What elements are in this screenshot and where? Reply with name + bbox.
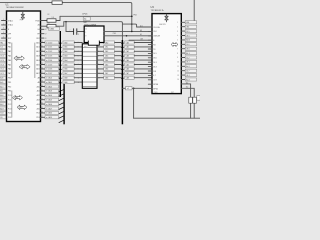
svg-text:25: 25 bbox=[41, 63, 43, 65]
junction TAG branch bbox=[65, 21, 67, 23]
svg-text:AB.6: AB.6 bbox=[186, 39, 190, 42]
svg-text:7DEN: 7DEN bbox=[154, 92, 158, 94]
svg-text:OC5: OC5 bbox=[0, 55, 4, 57]
bus 1b slash entries bbox=[59, 89, 64, 122]
U1 internal data-bus arrow symbol 4 bbox=[17, 105, 27, 110]
svg-text:16: 16 bbox=[45, 29, 47, 31]
junction row3 bbox=[126, 35, 128, 37]
svg-text:PC3: PC3 bbox=[8, 108, 11, 110]
svg-text:18: 18 bbox=[45, 38, 47, 40]
svg-text:A4.2: A4.2 bbox=[186, 78, 190, 81]
svg-text:A15: A15 bbox=[37, 107, 40, 110]
svg-text:R3: R3 bbox=[48, 23, 50, 25]
svg-text:DA7: DA7 bbox=[64, 72, 67, 75]
svg-text:DA1: DA1 bbox=[64, 46, 67, 49]
svg-text:AD7: AD7 bbox=[36, 72, 39, 75]
svg-text:35: 35 bbox=[41, 107, 43, 109]
svg-text:CPUb: CPUb bbox=[82, 13, 88, 15]
svg-text:m CD02: m CD02 bbox=[46, 51, 52, 53]
svg-text:w8: w8 bbox=[127, 88, 129, 90]
svg-text:AD3: AD3 bbox=[0, 107, 3, 110]
svg-text:29: 29 bbox=[41, 81, 43, 83]
svg-text:11: 11 bbox=[177, 66, 179, 68]
svg-text:CKT: CKT bbox=[153, 80, 156, 82]
svg-text:26: 26 bbox=[41, 68, 43, 70]
svg-text:CA8: CA8 bbox=[126, 76, 129, 79]
svg-text:21: 21 bbox=[41, 46, 43, 48]
svg-text:27: 27 bbox=[41, 72, 43, 74]
svg-text:A8: A8 bbox=[38, 76, 40, 79]
svg-text:AD1: AD1 bbox=[36, 46, 39, 49]
svg-text:AD0: AD0 bbox=[36, 41, 39, 44]
svg-text:24: 24 bbox=[41, 59, 43, 61]
svg-text:OC1: OC1 bbox=[0, 73, 4, 75]
svg-text:A10: A10 bbox=[0, 85, 3, 88]
svg-text:PB3: PB3 bbox=[8, 91, 11, 93]
svg-text:DA4: DA4 bbox=[64, 59, 67, 62]
svg-text:AD5: AD5 bbox=[36, 63, 39, 66]
svg-text:b b b: b b b bbox=[84, 46, 88, 48]
wire between verticals bbox=[122, 24, 136, 27]
U3 power/crystal symbol bbox=[159, 14, 168, 26]
U2 internal pin texts bbox=[86, 27, 87, 37]
svg-text:14.3: 14.3 bbox=[153, 62, 156, 64]
svg-text:AD4: AD4 bbox=[36, 59, 39, 62]
svg-text:T8: T8 bbox=[153, 49, 155, 51]
svg-text:m LA3U: m LA3U bbox=[46, 116, 53, 119]
bus 2 top thin feed wire bbox=[64, 22, 123, 40]
svg-text:A12: A12 bbox=[37, 94, 40, 97]
svg-text:LB.5: LB.5 bbox=[186, 35, 190, 37]
svg-text:32: 32 bbox=[41, 94, 43, 96]
svg-text:PC2: PC2 bbox=[8, 104, 11, 106]
wire crystal branch vertical bbox=[65, 22, 67, 32]
wire to U3 pin row3 bbox=[104, 35, 152, 37]
svg-text:14.2: 14.2 bbox=[186, 57, 189, 59]
svg-text:OC2: OC2 bbox=[0, 69, 4, 71]
svg-text:10: 10 bbox=[177, 62, 179, 64]
svg-text:A1.3: A1.3 bbox=[186, 52, 190, 55]
wire from R2 up to net E bbox=[56, 16, 60, 20]
svg-text:30: 30 bbox=[41, 85, 43, 87]
svg-text:A14: A14 bbox=[37, 103, 40, 106]
svg-text:CA2: CA2 bbox=[105, 50, 108, 53]
svg-text:CA4: CA4 bbox=[126, 59, 129, 62]
svg-text:17: 17 bbox=[45, 33, 47, 35]
svg-text:PC1: PC1 bbox=[8, 99, 11, 101]
svg-text:A08: A08 bbox=[0, 76, 3, 79]
svg-text:PORT: PORT bbox=[16, 58, 20, 60]
svg-text:PD4: PD4 bbox=[8, 113, 11, 115]
svg-text:m CA05: m CA05 bbox=[46, 98, 52, 101]
svg-text:PA3: PA3 bbox=[8, 54, 11, 57]
bus2 right net label boxes column feeding U3 bbox=[125, 41, 152, 79]
svg-text:CA8: CA8 bbox=[105, 76, 108, 79]
small labels above caps bbox=[186, 81, 189, 88]
resistor R3 bbox=[47, 23, 56, 28]
svg-text:U3: U3 bbox=[151, 5, 155, 9]
svg-text:m CA04: m CA04 bbox=[46, 94, 52, 97]
svg-text:XTAL2: XTAL2 bbox=[8, 24, 13, 27]
svg-text:A9: A9 bbox=[38, 81, 40, 84]
svg-text:A13: A13 bbox=[37, 98, 40, 101]
U1 right pin PG2 wire bbox=[41, 20, 48, 22]
svg-text:PD2: PD2 bbox=[36, 113, 39, 115]
wire to U3 pin row1 bbox=[137, 26, 152, 28]
svg-text:CA5: CA5 bbox=[126, 63, 129, 66]
svg-text:IC1: IC1 bbox=[0, 51, 3, 53]
svg-text:CA1: CA1 bbox=[105, 46, 108, 49]
svg-text:m CA30: m CA30 bbox=[46, 112, 52, 115]
U1 internal data-bus arrow symbol 3 bbox=[13, 95, 23, 100]
svg-text:36: 36 bbox=[41, 112, 43, 114]
svg-text:18.3: 18.3 bbox=[153, 66, 156, 68]
svg-text:22: 22 bbox=[41, 50, 43, 52]
svg-text:DA(8): DA(8) bbox=[50, 28, 55, 31]
svg-text:PA1: PA1 bbox=[8, 46, 11, 49]
svg-text:PB2: PB2 bbox=[8, 86, 11, 88]
svg-text:A11: A11 bbox=[0, 90, 3, 93]
svg-text:PG2h: PG2h bbox=[35, 20, 39, 22]
svg-text:AD0: AD0 bbox=[0, 94, 3, 97]
svg-text:OC4: OC4 bbox=[0, 60, 4, 62]
svg-text:m CD01: m CD01 bbox=[46, 47, 52, 49]
svg-text:m CD00: m CD00 bbox=[46, 42, 52, 44]
wire to U3 pin row4 bbox=[129, 39, 152, 41]
capacitor C1 bbox=[189, 97, 193, 103]
svg-text:A4.1: A4.1 bbox=[186, 65, 190, 68]
net label small box on return wire bbox=[126, 87, 133, 91]
svg-text:MPD2: MPD2 bbox=[153, 88, 158, 90]
wire to U3 pin row2 bbox=[104, 30, 152, 32]
junction row2 bbox=[131, 31, 133, 33]
svg-text:m CD04: m CD04 bbox=[46, 60, 52, 62]
bus 1 entries triangles bbox=[59, 41, 62, 83]
svg-text:AD6: AD6 bbox=[36, 68, 39, 71]
svg-text:PD5: PD5 bbox=[8, 117, 11, 119]
svg-text:14.7: 14.7 bbox=[186, 70, 189, 72]
svg-text:6,7: 6,7 bbox=[153, 75, 155, 77]
svg-text:CA0: CA0 bbox=[126, 41, 129, 44]
U1 right pin label boxes column bbox=[36, 41, 58, 119]
svg-text:TPC8FU517k: TPC8FU517k bbox=[151, 10, 165, 12]
U1 right pin texts rows 3-5 bbox=[35, 20, 46, 40]
U1 right pin A1 wire bbox=[41, 25, 48, 27]
svg-text:XTAL1: XTAL1 bbox=[8, 19, 13, 22]
U3 internal arrow symbol bbox=[171, 42, 178, 46]
svg-text:PD3: PD3 bbox=[36, 117, 39, 119]
svg-text:OC3: OC3 bbox=[0, 64, 4, 66]
U1 internal data-bus arrow symbol 2 bbox=[19, 65, 30, 70]
svg-text:PA0: PA0 bbox=[8, 41, 11, 44]
wire from R3 to crystal node bbox=[56, 22, 64, 27]
svg-text:m CA02: m CA02 bbox=[46, 85, 52, 88]
wire U3 right pin down to cap C1 bbox=[181, 84, 190, 118]
wire right vertical from top edge bbox=[193, 0, 195, 21]
svg-text:33: 33 bbox=[41, 98, 43, 100]
wire bottom loop vertical bbox=[133, 88, 135, 118]
svg-text:m CD03: m CD03 bbox=[46, 55, 52, 57]
svg-text:E: E bbox=[86, 36, 87, 38]
svg-text:AD2: AD2 bbox=[36, 50, 39, 53]
svg-text:DA3: DA3 bbox=[64, 54, 67, 57]
svg-text:A11: A11 bbox=[37, 90, 40, 93]
svg-text:74HC573PW: 74HC573PW bbox=[84, 24, 96, 26]
svg-text:G4: G4 bbox=[37, 29, 39, 31]
svg-text:m CD05: m CD05 bbox=[46, 64, 52, 66]
svg-text:PE8: PE8 bbox=[20, 19, 23, 21]
svg-text:12: 12 bbox=[177, 70, 179, 72]
svg-text:DA8: DA8 bbox=[64, 76, 67, 79]
svg-text:28: 28 bbox=[41, 76, 43, 78]
svg-text:PA4: PA4 bbox=[8, 59, 11, 62]
svg-text:CA3: CA3 bbox=[105, 54, 108, 57]
resistor R2 bbox=[47, 14, 56, 22]
svg-text:LB.0: LB.0 bbox=[186, 48, 190, 50]
U1 internal data-bus arrow symbol 1 bbox=[14, 56, 25, 61]
U1 internal bus bracket left upper bbox=[11, 43, 13, 78]
bus 2 entries triangles bbox=[121, 41, 124, 79]
svg-text:23: 23 bbox=[41, 54, 43, 56]
svg-text:PG1: PG1 bbox=[113, 33, 116, 35]
wire VCC top rail bbox=[0, 3, 132, 32]
svg-text:PA6: PA6 bbox=[8, 68, 11, 71]
svg-text:m CD07: m CD07 bbox=[46, 73, 52, 75]
svg-text:A10: A10 bbox=[37, 85, 40, 88]
bus 2 address bus vertical bbox=[121, 40, 123, 124]
svg-text:PORT: PORT bbox=[14, 98, 18, 100]
memory IC U3 body bbox=[152, 14, 181, 94]
bus 1b lower bus vertical bbox=[63, 84, 65, 124]
svg-text:DA6: DA6 bbox=[64, 68, 67, 71]
svg-text:R2: R2 bbox=[48, 14, 50, 16]
svg-text:13: 13 bbox=[177, 75, 179, 77]
svg-text:RST: RST bbox=[8, 38, 11, 40]
svg-text:14.5: 14.5 bbox=[186, 31, 189, 33]
U1 internal bus bracket left lower bbox=[11, 91, 13, 118]
svg-text:PC0: PC0 bbox=[8, 95, 11, 97]
svg-text:m CA07: m CA07 bbox=[46, 107, 52, 110]
svg-text:31: 31 bbox=[41, 90, 43, 92]
resistor R1 on top rail bbox=[52, 1, 62, 4]
svg-text:LA3: LA3 bbox=[186, 25, 189, 28]
svg-text:AD3: AD3 bbox=[36, 54, 39, 57]
svg-text:PA2: PA2 bbox=[8, 50, 11, 53]
svg-text:MC68HC11E9FN2: MC68HC11E9FN2 bbox=[7, 7, 25, 9]
svg-text:DA9: DA9 bbox=[64, 81, 67, 84]
svg-text:PORT: PORT bbox=[21, 67, 25, 69]
svg-text:PORT: PORT bbox=[19, 107, 23, 109]
svg-text:8: 8 bbox=[78, 34, 79, 36]
capacitor C2 bbox=[193, 97, 197, 103]
svg-text:14: 14 bbox=[177, 79, 179, 81]
svg-text:PB1: PB1 bbox=[8, 82, 11, 84]
svg-text:A09: A09 bbox=[0, 81, 3, 84]
latch IC U2 body bbox=[84, 26, 104, 43]
U1 left upper pins wires bbox=[2, 19, 14, 40]
svg-text:PA5: PA5 bbox=[8, 63, 11, 66]
U2 bottom tab bbox=[88, 41, 99, 45]
svg-text:CA0: CA0 bbox=[105, 41, 108, 44]
svg-text:m CA00: m CA00 bbox=[46, 76, 52, 79]
svg-text:m CA01: m CA01 bbox=[46, 81, 52, 84]
wire bottom ground rail bbox=[134, 117, 200, 119]
svg-text:14.0: 14.0 bbox=[186, 44, 189, 46]
svg-text:m CA06: m CA06 bbox=[46, 103, 52, 106]
svg-text:37: 37 bbox=[41, 116, 43, 118]
svg-text:CA2: CA2 bbox=[126, 50, 129, 53]
U3 bottom row internal texts bbox=[154, 92, 175, 94]
junction bottom loop bbox=[133, 87, 135, 89]
U1 left pin net label boxes column bbox=[0, 41, 11, 119]
svg-text:20: 20 bbox=[41, 41, 43, 43]
svg-text:LB.2: LB.2 bbox=[186, 62, 190, 64]
bus 1 address bus vertical bbox=[59, 31, 61, 97]
U3 left pin stubs and names bbox=[148, 26, 160, 91]
wire A/D return horizontal bbox=[122, 87, 148, 89]
svg-text:10K: 10K bbox=[52, 17, 55, 19]
svg-text:RST: RST bbox=[36, 38, 39, 40]
wire net CPUb horizontal bbox=[60, 15, 132, 17]
svg-text:DA0: DA0 bbox=[64, 41, 67, 44]
svg-text:WLT: WLT bbox=[171, 92, 174, 94]
svg-text:m CD06: m CD06 bbox=[46, 69, 52, 71]
junction dot net1 bbox=[131, 15, 133, 17]
svg-text:CA7: CA7 bbox=[126, 72, 129, 75]
wire U3 right pin down to cap C2 bbox=[181, 88, 194, 118]
svg-text:DA2: DA2 bbox=[64, 50, 67, 53]
svg-text:R3: R3 bbox=[153, 44, 155, 46]
svg-text:CA1: CA1 bbox=[126, 46, 129, 49]
svg-text:CA7: CA7 bbox=[105, 72, 108, 75]
svg-text:m CA03: m CA03 bbox=[46, 90, 52, 93]
svg-text:DA5: DA5 bbox=[64, 63, 67, 66]
svg-text:A1: A1 bbox=[38, 24, 40, 27]
op IC U1 MC68HC11 MCU body bbox=[7, 11, 41, 122]
middle left net label boxes column DA bbox=[63, 41, 82, 84]
svg-text:PA7: PA7 bbox=[8, 72, 11, 75]
U1 internal bus bracket right bbox=[34, 43, 36, 78]
svg-text:18.6: 18.6 bbox=[153, 58, 156, 60]
U1 power/crystal symbol top center bbox=[20, 12, 25, 22]
svg-text:103: 103 bbox=[153, 71, 156, 73]
svg-text:CA5: CA5 bbox=[105, 63, 108, 66]
svg-text:LB.1: LB.1 bbox=[186, 75, 190, 77]
junction dot net2 bbox=[131, 23, 133, 25]
component right edge bbox=[197, 96, 200, 101]
U3 right pin label boxes column bbox=[177, 21, 196, 82]
svg-text:CA3: CA3 bbox=[126, 54, 129, 57]
small net labels at U3 left bbox=[140, 24, 143, 40]
svg-text:4FF: 4FF bbox=[8, 34, 11, 36]
net label TAG bbox=[83, 17, 90, 21]
svg-text:CNE-GR: CNE-GR bbox=[153, 36, 160, 38]
svg-text:AD1: AD1 bbox=[0, 98, 3, 101]
svg-text:CA4: CA4 bbox=[105, 59, 108, 62]
svg-text:MPDE: MPDE bbox=[153, 84, 159, 86]
svg-text:PB0: PB0 bbox=[8, 77, 11, 79]
bus DA net label box bbox=[49, 27, 60, 31]
memory/resistor-network chip U4 body with row dividers bbox=[82, 44, 97, 89]
svg-text:CLK-CA: CLK-CA bbox=[153, 26, 160, 29]
svg-text:CA6: CA6 bbox=[105, 68, 108, 71]
svg-text:AD2: AD2 bbox=[0, 103, 3, 106]
svg-text:14.5: 14.5 bbox=[153, 53, 156, 55]
svg-text:34: 34 bbox=[41, 103, 43, 105]
svg-text:CA6: CA6 bbox=[126, 68, 129, 71]
middle right net label boxes column CA bbox=[97, 41, 121, 79]
svg-text:IC2: IC2 bbox=[0, 47, 3, 49]
crystal Y1 bbox=[66, 28, 84, 36]
svg-text:PN2: PN2 bbox=[133, 14, 136, 16]
